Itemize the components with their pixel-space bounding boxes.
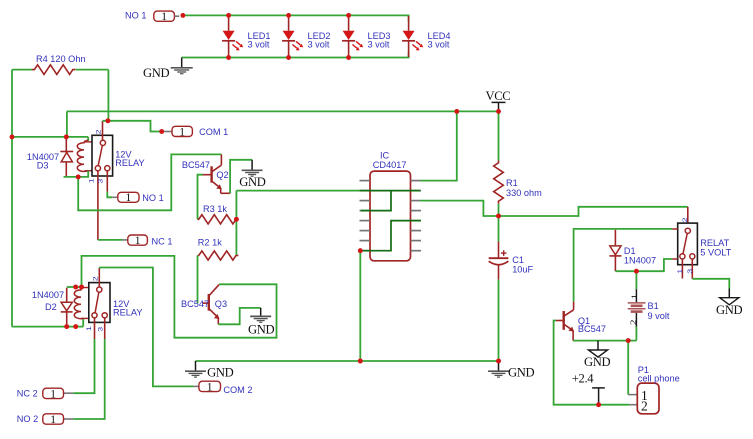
svg-text:1: 1 — [50, 414, 56, 426]
svg-text:GND: GND — [584, 355, 610, 369]
wire K2 coil top — [67, 286, 82, 288]
svg-text:GND: GND — [508, 366, 534, 380]
junction COM1 label (top coat) — [159, 129, 164, 134]
junction K2 coil bottom (top coat) — [73, 324, 78, 329]
svg-text:3 volt: 3 volt — [368, 39, 390, 49]
resistor R4 120 Ohn — [12, 54, 108, 75]
svg-text:2: 2 — [681, 218, 688, 223]
svg-text:GND: GND — [248, 322, 274, 336]
svg-text:1: 1 — [88, 178, 95, 183]
wire Q1 collector to K3 coil top — [574, 229, 673, 302]
junction K2 coil top b (top coat) — [79, 285, 84, 290]
wire LED bottom rail — [182, 52, 409, 58]
svg-text:GND: GND — [143, 66, 169, 80]
junction ground rail/C1 (top coat) — [496, 359, 501, 364]
wire IC right pin1 to VCC rail — [420, 111, 457, 180]
wire bottom ground rail — [196, 360, 499, 362]
wire IC right pin3 to R1 junction — [420, 201, 498, 216]
wire K2 pin2 to COM2 — [99, 268, 194, 387]
node COM 1 (label) — [164, 126, 228, 138]
wire across IC row2 (dark) — [360, 190, 421, 192]
junction ground rail/IC (top coat) — [358, 359, 363, 364]
junction LED2 bottom — [286, 55, 291, 60]
svg-text:RELAY: RELAY — [113, 308, 142, 318]
wire left rail to D2/coil K2 bottom — [12, 326, 83, 328]
resistor R1 330 ohm — [494, 111, 542, 216]
junction B1 plus — [634, 269, 639, 274]
junction R3/R2 junction (top coat) — [234, 217, 239, 222]
svg-text:NO 1: NO 1 — [125, 11, 146, 21]
junction LED2 top (top coat) — [286, 13, 291, 18]
svg-text:10uF: 10uF — [512, 264, 533, 274]
node NO 2 (label) — [17, 414, 74, 426]
diode D2 1N4007 — [32, 288, 73, 327]
junction D2 bottom (top coat) — [64, 324, 69, 329]
node NO 1 (top label) — [125, 11, 179, 24]
relay K2 12V RELAY — [74, 268, 142, 339]
junction LED3 bottom (top coat) — [346, 55, 351, 60]
IC right pin stubs — [411, 181, 422, 251]
LED LED2 3 volt — [282, 16, 330, 57]
svg-text:GND: GND — [716, 303, 742, 317]
transistor Q2 BC547 — [182, 154, 230, 193]
resistor R3 1k — [198, 204, 239, 224]
svg-text:BC547: BC547 — [181, 299, 209, 309]
svg-text:330 ohm: 330 ohm — [506, 188, 542, 198]
wire K1 pin3 to NO1 label — [107, 192, 112, 198]
svg-text:3 volt: 3 volt — [308, 39, 330, 49]
wire Q2 base to R3 — [198, 175, 203, 220]
transistor Q1 BC547 — [556, 302, 606, 341]
wire D1 bottom / B1 plus / K3 coil bottom — [615, 259, 672, 271]
svg-text:NO 2: NO 2 — [17, 414, 38, 424]
svg-text:B1: B1 — [648, 301, 659, 311]
ground GND (Q3) — [248, 308, 274, 336]
junction K1 coil bottom (top coat) — [76, 175, 81, 180]
svg-text:9 volt: 9 volt — [648, 311, 670, 321]
junction LED3 bottom — [346, 55, 351, 60]
wire LED top rail — [183, 15, 409, 21]
wire left rail to D3/coil top — [12, 136, 88, 138]
wire Q3 collector loop to K2 coil — [82, 256, 277, 338]
power VCC — [486, 89, 511, 112]
svg-text:R3 1k: R3 1k — [203, 204, 227, 214]
svg-text:IC: IC — [380, 150, 390, 160]
wire K2 coil bottom entry — [82, 319, 84, 327]
svg-text:RELAT: RELAT — [700, 238, 729, 248]
svg-text:COM 1: COM 1 — [199, 127, 228, 137]
wire junction up to IC pin row2 — [235, 191, 237, 220]
LED LED1 3 volt — [222, 16, 270, 57]
power +2.4 — [572, 372, 605, 405]
junction B1 plus (top coat) — [634, 269, 639, 274]
svg-text:NC 1: NC 1 — [152, 236, 173, 246]
svg-text:NC 2: NC 2 — [17, 389, 38, 399]
svg-text:+2.4: +2.4 — [572, 372, 594, 386]
wire R2 left to Q3 base — [197, 256, 199, 304]
junction R3/R2/IC wire — [234, 217, 239, 222]
wire R4 right drop to relay K1 pin2 — [107, 70, 109, 121]
battery B1 9 volt — [628, 271, 670, 340]
svg-text:Q2: Q2 — [216, 170, 228, 180]
svg-text:3: 3 — [97, 179, 104, 184]
wire VCC rail — [67, 110, 499, 112]
junction rail / IC pin8 wire — [358, 359, 363, 364]
svg-text:1: 1 — [135, 235, 141, 247]
svg-text:RELAY: RELAY — [115, 158, 144, 168]
junction K2 coil top a — [73, 285, 78, 290]
svg-text:GND: GND — [239, 175, 265, 189]
svg-text:BC547: BC547 — [182, 160, 210, 170]
svg-text:COM 2: COM 2 — [223, 385, 252, 395]
svg-text:2: 2 — [629, 319, 639, 325]
svg-text:BC547: BC547 — [578, 324, 606, 334]
junction LED1 top — [226, 13, 231, 18]
junction LED1 bottom (top coat) — [226, 55, 231, 60]
wire R2 right to junction — [235, 219, 237, 255]
junction R1/C1 — [496, 214, 501, 219]
svg-text:D2: D2 — [45, 302, 57, 312]
svg-text:Q3: Q3 — [215, 299, 227, 309]
svg-text:NO 1: NO 1 — [142, 193, 163, 203]
ground GND (K3) — [716, 289, 742, 317]
svg-text:3 volt: 3 volt — [248, 39, 270, 49]
junction K2 coil top a (top coat) — [73, 285, 78, 290]
junction D3 top — [64, 135, 69, 140]
junction VCC rail/R1 (top coat) — [496, 109, 501, 114]
op-amp/IC U1 CD4017 — [360, 150, 422, 260]
svg-text:cell phone: cell phone — [638, 374, 680, 384]
junction LED2 bottom (top coat) — [286, 55, 291, 60]
svg-text:1N4007: 1N4007 — [624, 255, 656, 265]
wire to IC left pin 2 — [236, 190, 359, 192]
svg-text:GND: GND — [207, 366, 233, 380]
ground GND (rail left) — [185, 361, 234, 380]
junction LED3 top — [346, 13, 351, 18]
IC left pin stubs — [360, 181, 371, 251]
wire K1 pin1 to NC1 label — [98, 239, 123, 241]
svg-text:1: 1 — [126, 192, 132, 204]
junction K1 pin2 (top coat) — [106, 118, 111, 123]
wire K2 pin1 to NC2 label — [73, 339, 94, 393]
connector P1 cell phone — [628, 365, 679, 414]
diode D1 1N4007 — [609, 230, 656, 271]
svg-text:VCC: VCC — [486, 89, 511, 103]
svg-text:1: 1 — [630, 294, 640, 300]
junction IC left pin8 — [358, 248, 363, 253]
svg-text:1: 1 — [85, 326, 92, 331]
svg-text:1: 1 — [676, 269, 683, 274]
ground GND (Q1) — [584, 341, 610, 370]
junction LED1 bottom — [226, 55, 231, 60]
junction D2 bottom — [64, 324, 69, 329]
wire Q3 emitter to GND — [218, 308, 260, 324]
ground GND (LED rail) — [143, 58, 193, 80]
wire K1 coil bottom — [64, 171, 89, 177]
svg-text:D1: D1 — [624, 246, 636, 256]
wire B1 minus branch to P1 pin1 — [627, 341, 629, 395]
svg-text:3: 3 — [97, 327, 104, 332]
resistor R2 1k — [198, 237, 239, 260]
wire Q1 emitter / B1 minus — [573, 340, 636, 342]
wire K3 pin3 to GND — [692, 279, 729, 289]
junction at NO1 label — [181, 13, 186, 18]
capacitor C1 10uF — [489, 216, 534, 361]
relay K3 RELAT 5 VOLT — [672, 207, 732, 279]
transistor Q3 BC547 — [181, 285, 227, 325]
wire K1 pin2 to COM1 — [103, 121, 161, 132]
svg-text:1: 1 — [161, 11, 167, 23]
wire left supply rail — [11, 70, 13, 327]
junction COM1 label — [159, 129, 164, 134]
ground GND (Q2) — [239, 160, 265, 189]
svg-text:1N4007: 1N4007 — [32, 290, 64, 300]
wire IC internal row2 to row4 — [361, 191, 391, 211]
svg-text:3: 3 — [686, 269, 693, 274]
svg-text:R4 120 Ohn: R4 120 Ohn — [36, 54, 86, 64]
junction K1 coil bottom — [76, 175, 81, 180]
svg-text:1: 1 — [179, 126, 185, 138]
junction K2 coil bottom — [73, 324, 78, 329]
junction +2.4 tap — [596, 402, 601, 407]
node COM 2 (label) — [194, 381, 253, 395]
junction D3 top (top coat) — [64, 135, 69, 140]
wire IC pin8 to ground rail — [359, 251, 361, 361]
junction VCC rail / IC pin1 — [455, 109, 460, 114]
svg-text:2: 2 — [95, 130, 102, 135]
junction VCC rail/IC pin1 (top coat) — [454, 109, 459, 114]
svg-text:R2 1k: R2 1k — [198, 237, 222, 247]
junction P1 branch (top coat) — [626, 338, 631, 343]
wire K1 coil bottom to Q2 collector — [78, 154, 221, 210]
junction LED2 top — [286, 13, 291, 18]
junction VCC rail / R1 — [496, 109, 501, 114]
svg-text:2: 2 — [641, 399, 648, 414]
wire K2 pin3 to NO2 label — [73, 339, 104, 419]
LED LED3 3 volt — [342, 16, 390, 57]
junction IC pin8 (top coat) — [358, 248, 363, 253]
LED LED4 3 volt — [402, 16, 450, 57]
wire Q1 base to bottom net — [554, 321, 630, 405]
junction left rail / K1 branch — [10, 135, 15, 140]
wire VCC rail drop to relay K1 — [66, 111, 68, 136]
junction left rail/K1 branch (top coat) — [10, 135, 15, 140]
junction top NO1 label (top coat) — [181, 13, 186, 18]
relay K1 12V RELAY — [77, 121, 144, 240]
svg-text:CD4017: CD4017 — [373, 160, 407, 170]
junction LED3 top (top coat) — [346, 13, 351, 18]
wire Q2 emitter to GND — [230, 160, 252, 194]
node NO 1 (relay label) — [112, 192, 163, 204]
wire IC internal row5 to row8 — [360, 221, 421, 251]
diode D3 1N4007 — [27, 138, 73, 177]
junction R1/C1 (top coat) — [496, 214, 501, 219]
svg-text:D3: D3 — [37, 160, 49, 170]
svg-text:5 VOLT: 5 VOLT — [700, 247, 731, 257]
ground GND (rail right) — [488, 361, 534, 380]
junction K1 pin2 — [106, 118, 111, 123]
junction LED1 top (top coat) — [226, 13, 231, 18]
svg-text:3 volt: 3 volt — [428, 39, 450, 49]
node NC 2 (label) — [17, 388, 74, 400]
svg-text:1: 1 — [50, 388, 56, 400]
junction K2 coil top b — [79, 285, 84, 290]
junction rail / C1 — [496, 359, 501, 364]
svg-text:R1: R1 — [506, 178, 518, 188]
svg-text:2: 2 — [92, 276, 99, 281]
node NC 1 (label) — [122, 235, 172, 247]
svg-text:1: 1 — [207, 381, 213, 393]
wire coil K1 top entry — [87, 137, 89, 141]
junction P1 pin1 branch — [626, 338, 631, 343]
svg-text:C1: C1 — [512, 255, 524, 265]
wire R1 junction to relay K3 pin2 — [499, 207, 688, 216]
junction +2.4 tap (top coat) — [596, 402, 601, 407]
